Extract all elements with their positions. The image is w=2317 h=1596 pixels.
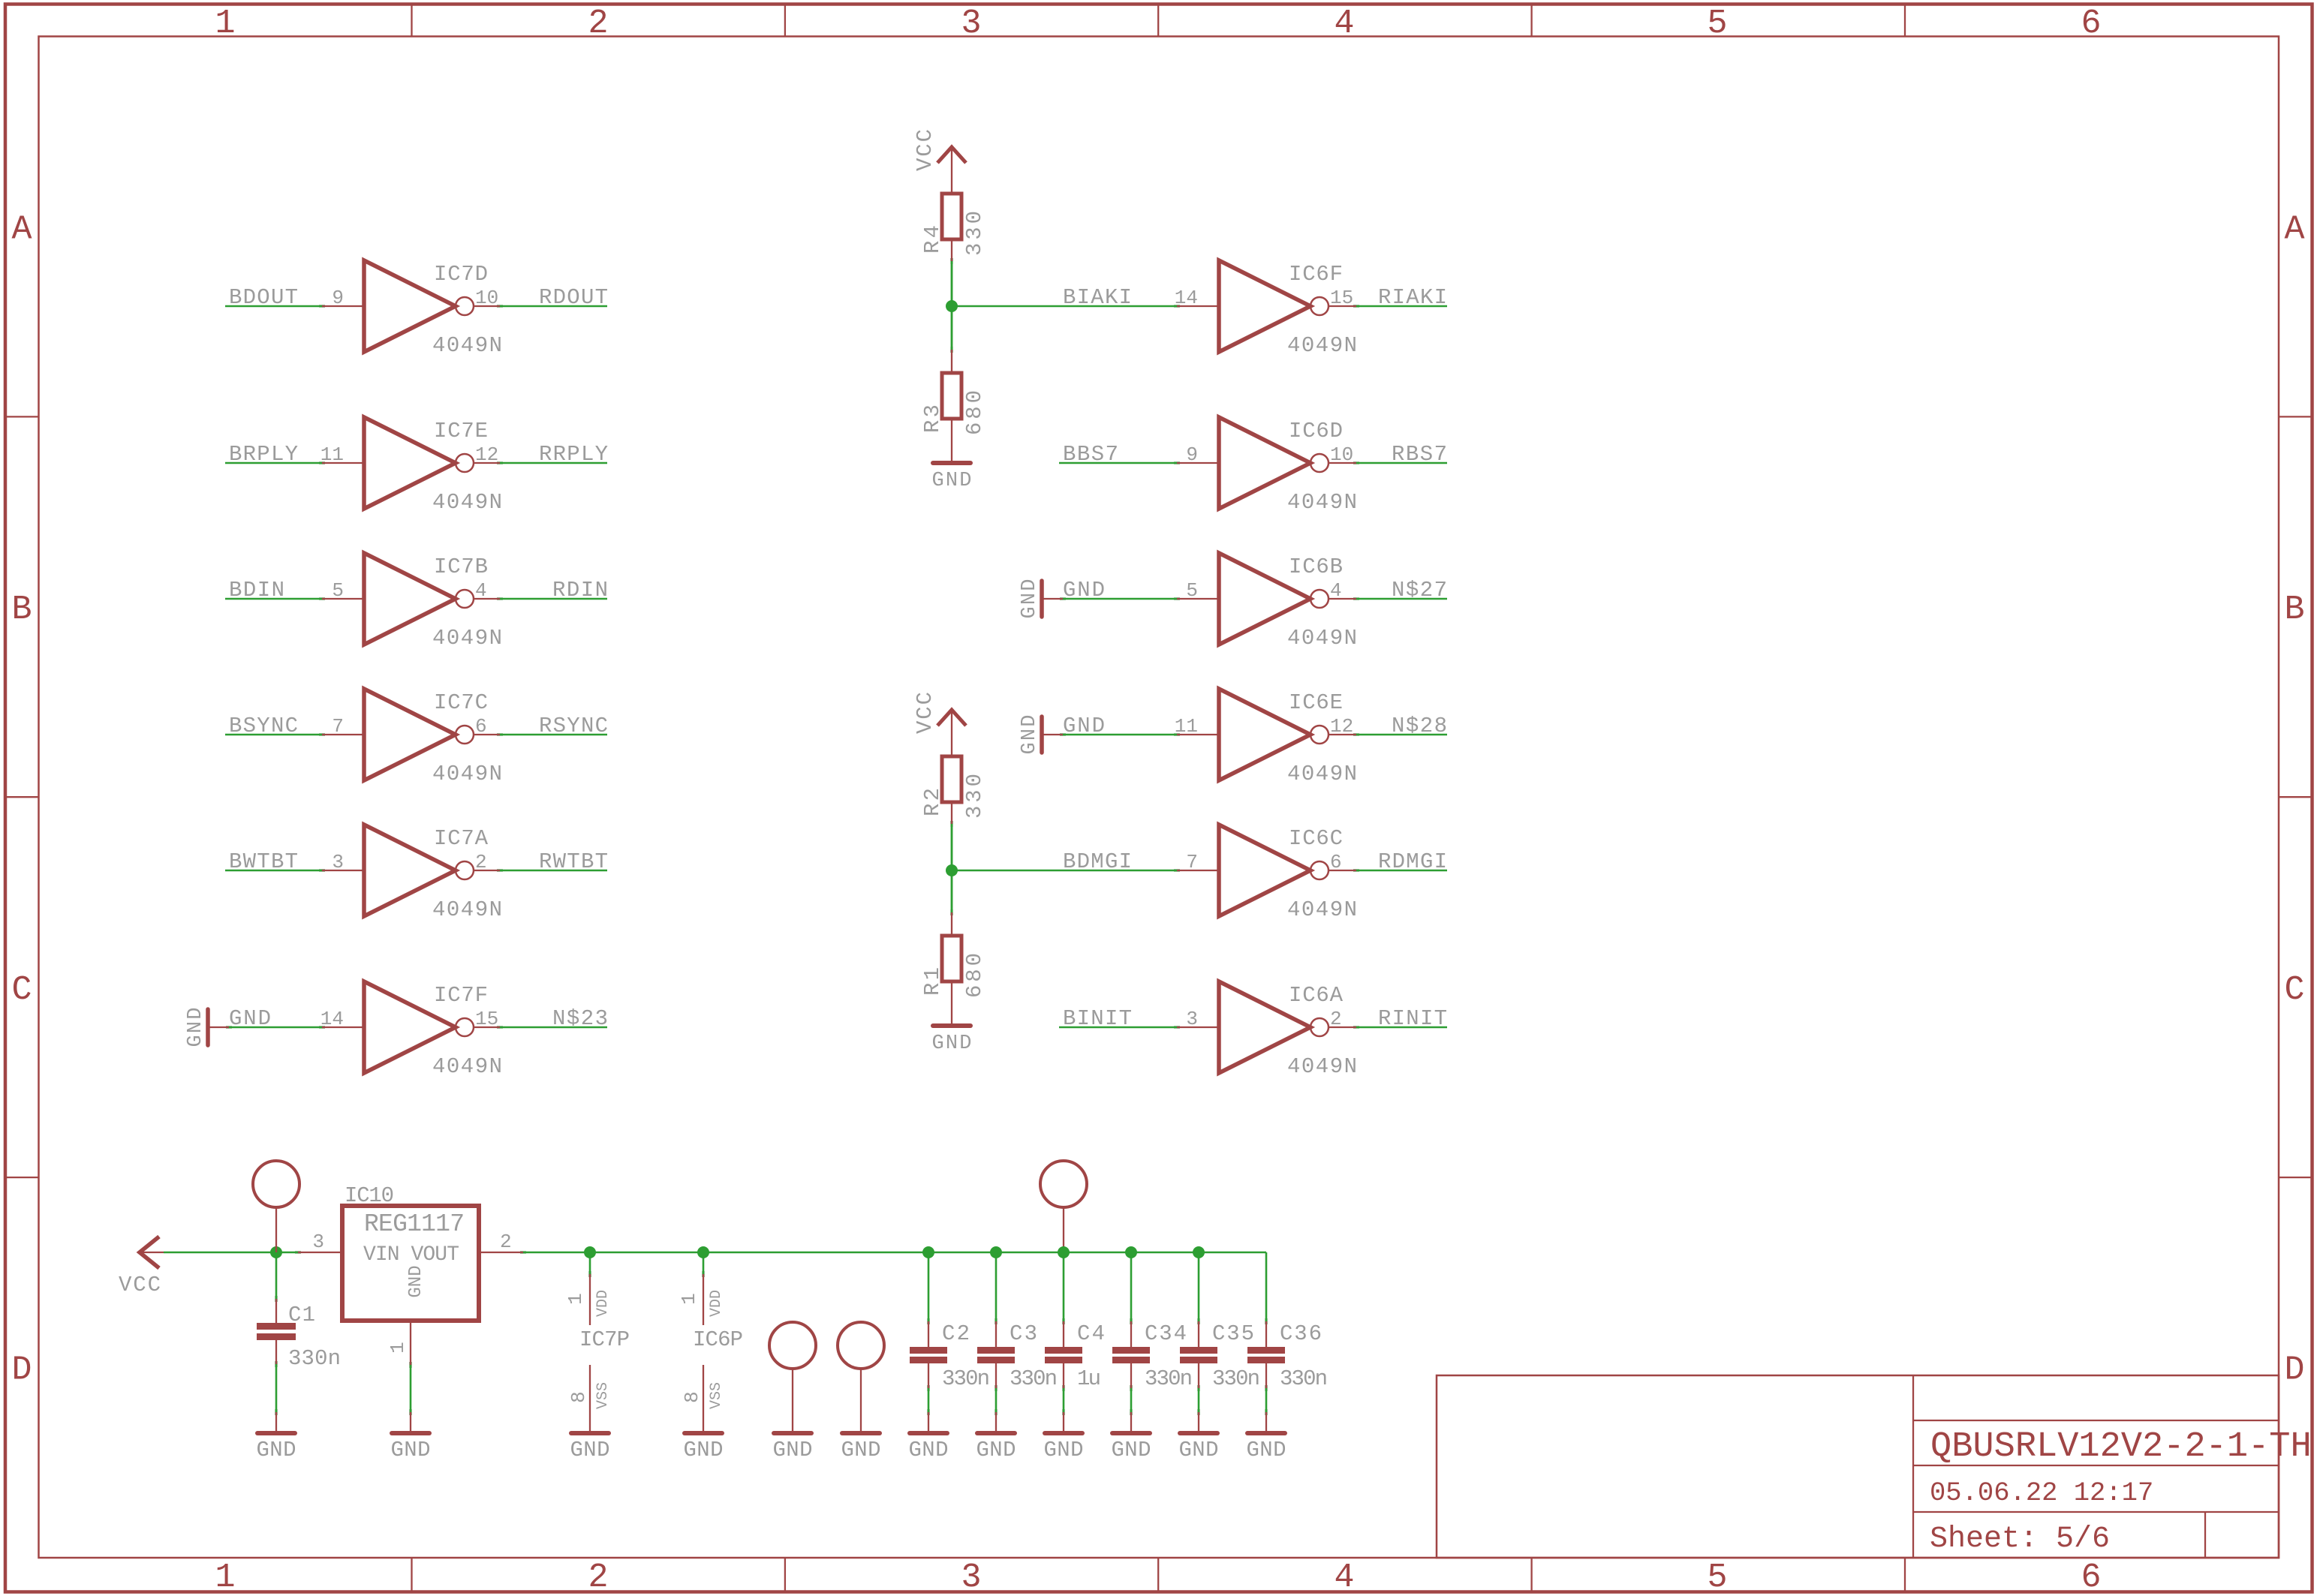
inverter IC6C: [1219, 825, 1329, 916]
svg-text:IC7A: IC7A: [434, 826, 489, 851]
svg-text:C1: C1: [288, 1303, 315, 1327]
svg-text:IC6F: IC6F: [1289, 262, 1343, 287]
svg-text:GND: GND: [909, 1438, 949, 1462]
svg-text:4: 4: [475, 579, 487, 602]
svg-text:11: 11: [1175, 715, 1198, 738]
svg-text:VSS: VSS: [708, 1382, 725, 1409]
wire net RBS7: [1356, 462, 1447, 464]
ground below C1: [257, 1433, 296, 1462]
junction at C34: [1125, 1246, 1137, 1258]
pin 3 of IC7A: [322, 870, 364, 871]
svg-text:GND: GND: [932, 1032, 972, 1055]
pin wire below R3: [951, 419, 952, 463]
wire net BDOUT: [225, 305, 322, 308]
svg-text:GND: GND: [1112, 1438, 1151, 1462]
svg-text:GND: GND: [229, 1006, 271, 1031]
svg-text:330n: 330n: [288, 1346, 341, 1371]
pin 6 of IC6C: [1329, 870, 1356, 871]
svg-text:6: 6: [475, 715, 487, 738]
svg-text:12: 12: [1330, 715, 1353, 738]
svg-text:C34: C34: [1145, 1321, 1187, 1346]
svg-text:BSYNC: BSYNC: [229, 714, 298, 738]
svg-text:C36: C36: [1280, 1321, 1322, 1346]
pin 11 of IC6E: [1177, 734, 1219, 735]
pin 12 of IC6E: [1329, 734, 1356, 735]
svg-text:1: 1: [678, 1293, 700, 1305]
svg-text:C: C: [11, 971, 32, 1009]
svg-text:GND: GND: [406, 1265, 426, 1297]
svg-text:3: 3: [961, 1558, 981, 1596]
testpoint pad above C4: [1040, 1161, 1087, 1252]
svg-text:N$28: N$28: [1392, 714, 1447, 738]
svg-text:330n: 330n: [1280, 1366, 1328, 1391]
svg-text:8: 8: [681, 1391, 703, 1403]
inverter IC7B: [364, 553, 474, 645]
inverter IC7F: [364, 981, 474, 1073]
testpoint pad: [838, 1322, 884, 1433]
svg-text:15: 15: [475, 1008, 498, 1030]
svg-text:10: 10: [1330, 443, 1353, 466]
svg-text:RBS7: RBS7: [1392, 442, 1447, 467]
svg-text:GND: GND: [257, 1438, 296, 1462]
pin 12 of IC7E: [474, 462, 500, 464]
pin 14 of IC6F: [1177, 305, 1219, 307]
svg-text:4049N: 4049N: [432, 897, 502, 922]
capacitor C1: [257, 1252, 296, 1433]
wire net RDIN: [500, 598, 607, 600]
svg-text:IC6C: IC6C: [1289, 826, 1343, 851]
inverter IC7A: [364, 825, 474, 916]
svg-text:4049N: 4049N: [1287, 490, 1357, 515]
inverter IC7E: [364, 417, 474, 509]
svg-text:RRPLY: RRPLY: [539, 442, 608, 467]
svg-text:N$27: N$27: [1392, 578, 1447, 603]
VCC symbol above R4: [937, 147, 966, 194]
svg-text:IC7D: IC7D: [434, 262, 488, 287]
svg-text:C: C: [2284, 971, 2304, 1009]
resistor R3: [942, 373, 961, 419]
svg-text:Sheet: 5/6: Sheet: 5/6: [1930, 1522, 2110, 1556]
wire net RSYNC: [500, 734, 607, 736]
svg-text:680: 680: [962, 953, 987, 998]
testpoint pad: [769, 1322, 816, 1433]
svg-text:8: 8: [567, 1391, 590, 1403]
ground below C34: [1112, 1433, 1151, 1462]
svg-text:7: 7: [1186, 851, 1198, 873]
wire net BBS7: [1059, 462, 1177, 464]
pin 2 of IC7A: [474, 870, 500, 871]
svg-text:IC7E: IC7E: [434, 419, 488, 443]
svg-text:IC7C: IC7C: [434, 690, 488, 715]
svg-text:7: 7: [332, 715, 344, 738]
pin 5 of IC6B: [1177, 598, 1219, 600]
svg-text:4049N: 4049N: [432, 762, 502, 786]
svg-text:VSS: VSS: [594, 1382, 612, 1409]
svg-text:3: 3: [332, 851, 344, 873]
svg-text:330n: 330n: [942, 1366, 990, 1391]
svg-text:BDIN: BDIN: [229, 578, 284, 603]
svg-text:14: 14: [1175, 287, 1198, 309]
junction at C2: [922, 1246, 934, 1258]
pin 10 of IC6D: [1329, 462, 1356, 464]
svg-text:GND: GND: [932, 470, 972, 492]
wire net RWTBT: [500, 870, 607, 872]
svg-text:14: 14: [320, 1008, 344, 1030]
svg-text:IC7F: IC7F: [434, 983, 488, 1008]
ground below testpoint: [841, 1433, 881, 1462]
svg-text:IC7B: IC7B: [434, 555, 488, 579]
svg-text:3: 3: [1186, 1008, 1198, 1030]
svg-text:C35: C35: [1212, 1321, 1254, 1346]
svg-text:4049N: 4049N: [1287, 333, 1357, 358]
svg-text:2: 2: [475, 851, 487, 873]
svg-text:4049N: 4049N: [1287, 762, 1357, 786]
power pins of IC6P: [678, 1252, 725, 1433]
svg-text:VCC: VCC: [913, 129, 937, 171]
svg-text:VCC: VCC: [119, 1273, 161, 1297]
svg-text:N$23: N$23: [552, 1006, 608, 1031]
resistor R2: [942, 756, 961, 802]
svg-text:B: B: [2284, 591, 2304, 629]
svg-text:VCC: VCC: [913, 692, 937, 734]
svg-text:05.06.22 12:17: 05.06.22 12:17: [1930, 1477, 2153, 1508]
capacitor C34: [1112, 1252, 1150, 1433]
svg-text:GND: GND: [1063, 714, 1105, 738]
ground below testpoint: [773, 1433, 813, 1462]
svg-text:VDD: VDD: [594, 1290, 612, 1317]
svg-text:4049N: 4049N: [432, 333, 502, 358]
wire to node: [951, 261, 953, 350]
svg-text:GND: GND: [1179, 1438, 1219, 1462]
wire net BSYNC: [225, 734, 322, 736]
svg-text:5: 5: [1707, 1558, 1727, 1596]
svg-text:2: 2: [1330, 1008, 1342, 1030]
svg-text:IC6D: IC6D: [1289, 419, 1343, 443]
svg-text:1: 1: [215, 5, 235, 43]
inverter IC6A: [1219, 981, 1329, 1073]
wire net RDMGI: [1356, 870, 1447, 872]
svg-text:GND: GND: [1044, 1438, 1084, 1462]
svg-text:12: 12: [475, 443, 498, 466]
inverter IC7C: [364, 689, 474, 780]
wire net N$23: [500, 1026, 607, 1029]
inverter IC6D: [1219, 417, 1329, 509]
svg-text:1u: 1u: [1077, 1366, 1101, 1391]
wire net RRPLY: [500, 462, 607, 464]
svg-text:BBS7: BBS7: [1063, 442, 1118, 467]
pin 3 of IC6A: [1177, 1026, 1219, 1028]
svg-text:3: 3: [312, 1231, 324, 1253]
capacitor C35: [1180, 1252, 1217, 1433]
svg-text:6: 6: [2081, 5, 2101, 43]
pin 5 of IC7B: [322, 598, 364, 600]
wire to node: [951, 824, 953, 912]
svg-text:D: D: [2284, 1351, 2304, 1390]
svg-text:5: 5: [332, 579, 344, 602]
ground below C4: [1044, 1433, 1084, 1462]
svg-text:4049N: 4049N: [432, 490, 502, 515]
svg-text:GND: GND: [1019, 579, 1041, 619]
wire GND to IC7F input: [229, 1026, 322, 1029]
svg-text:330n: 330n: [1212, 1366, 1260, 1391]
svg-text:RIAKI: RIAKI: [1378, 285, 1447, 310]
inverter IC6F: [1219, 260, 1329, 352]
pin 15 of IC7F: [474, 1026, 500, 1028]
svg-text:QBUSRLV12V2-2-1-TH: QBUSRLV12V2-2-1-TH: [1930, 1427, 2312, 1467]
svg-text:6: 6: [1330, 851, 1342, 873]
wire net BIAKI from node R4/R3: [951, 261, 953, 350]
wire net BWTBT: [225, 870, 322, 872]
capacitor C2: [910, 1252, 947, 1433]
svg-text:4049N: 4049N: [432, 626, 502, 651]
testpoint pad above C1: [253, 1161, 299, 1252]
pin 9 of IC6D: [1177, 462, 1219, 464]
wire GND to IC6B input: [1063, 598, 1177, 600]
wire net BDMGI from node R2/R1: [951, 824, 953, 912]
svg-text:BRPLY: BRPLY: [229, 442, 298, 467]
ground symbol at input of IC7F: [185, 1008, 229, 1047]
inverter IC6B: [1219, 553, 1329, 645]
svg-text:GND: GND: [570, 1438, 610, 1462]
svg-text:5: 5: [1186, 579, 1198, 602]
svg-text:330: 330: [962, 774, 987, 819]
svg-text:5: 5: [1707, 5, 1727, 43]
svg-text:BINIT: BINIT: [1063, 1006, 1132, 1031]
ground below IC7P: [570, 1433, 610, 1462]
svg-text:RDOUT: RDOUT: [539, 285, 608, 310]
pin 2 of IC6A: [1329, 1026, 1356, 1028]
pin 9 of IC7D: [322, 305, 364, 307]
junction node: [946, 300, 958, 312]
pin wire below R4: [951, 239, 952, 261]
wire net BRPLY: [225, 462, 322, 464]
svg-text:GND: GND: [976, 1438, 1016, 1462]
capacitor C4: [1045, 1252, 1082, 1433]
pin 2 of IC10: [479, 1252, 523, 1253]
svg-text:4: 4: [1334, 5, 1354, 43]
svg-text:2: 2: [500, 1231, 512, 1253]
svg-text:2: 2: [588, 5, 608, 43]
regulator IC10 body: [342, 1206, 479, 1321]
svg-text:GND: GND: [773, 1438, 813, 1462]
svg-text:10: 10: [475, 287, 498, 309]
svg-text:IC6A: IC6A: [1289, 983, 1344, 1008]
ground below C3: [976, 1433, 1016, 1462]
svg-text:VDD: VDD: [708, 1290, 725, 1317]
svg-text:1: 1: [564, 1293, 587, 1305]
pin wire above R3: [951, 350, 952, 373]
svg-text:A: A: [11, 211, 32, 249]
ground below C35: [1179, 1433, 1219, 1462]
svg-text:BWTBT: BWTBT: [229, 849, 298, 874]
svg-text:4: 4: [1330, 579, 1342, 602]
wire from divider node to IC6F input: [952, 305, 1177, 308]
pin 10 of IC7D: [474, 305, 500, 307]
svg-text:GND: GND: [841, 1438, 881, 1462]
svg-text:330n: 330n: [1145, 1366, 1193, 1391]
svg-text:RDIN: RDIN: [552, 578, 608, 603]
junction at IC7P: [584, 1246, 596, 1258]
svg-text:IC6B: IC6B: [1289, 555, 1343, 579]
pin 7 of IC6C: [1177, 870, 1219, 871]
ground below IC6P: [684, 1433, 724, 1462]
junction at C35: [1193, 1246, 1205, 1258]
svg-text:B: B: [11, 591, 32, 629]
svg-text:1: 1: [387, 1342, 409, 1354]
pin 11 of IC7E: [322, 462, 364, 464]
svg-text:9: 9: [1186, 443, 1198, 466]
svg-text:IC6P: IC6P: [693, 1327, 743, 1352]
svg-text:D: D: [11, 1351, 32, 1390]
svg-text:330n: 330n: [1010, 1366, 1058, 1391]
pin 3 of IC10: [298, 1252, 342, 1253]
svg-text:VIN VOUT: VIN VOUT: [363, 1243, 459, 1267]
svg-text:IC6E: IC6E: [1289, 690, 1343, 715]
svg-text:6: 6: [2081, 1558, 2101, 1596]
ground symbol below R1: [932, 1026, 972, 1055]
wire net BINIT: [1059, 1026, 1177, 1029]
svg-text:4049N: 4049N: [1287, 1054, 1357, 1079]
svg-text:GND: GND: [185, 1008, 207, 1047]
junction at IC6P: [697, 1246, 709, 1258]
ground symbol at input of IC6B: [1019, 579, 1063, 619]
pin 6 of IC7C: [474, 734, 500, 735]
capacitor C3: [977, 1252, 1015, 1433]
svg-text:GND: GND: [1019, 715, 1041, 755]
ground below C36: [1247, 1433, 1286, 1462]
wire net RIAKI: [1356, 305, 1447, 308]
pin wire above R1: [951, 912, 952, 936]
resistor R1: [942, 936, 961, 981]
wire net BDIN: [225, 598, 322, 600]
svg-text:680: 680: [962, 390, 987, 435]
ground symbol at input of IC6E: [1019, 715, 1063, 755]
wire net RDOUT: [500, 305, 607, 308]
svg-text:IC7P: IC7P: [579, 1327, 630, 1352]
VCC symbol above R2: [937, 710, 966, 756]
ground below IC10 pin 1: [391, 1412, 431, 1462]
inverter IC7D: [364, 260, 474, 352]
wire GND to IC6E input: [1063, 734, 1177, 736]
svg-text:4049N: 4049N: [1287, 897, 1357, 922]
resistor R4: [942, 194, 961, 239]
wire VCC rail right: [523, 1252, 1266, 1254]
svg-text:4049N: 4049N: [432, 1054, 502, 1079]
svg-text:BDOUT: BDOUT: [229, 285, 298, 310]
svg-text:GND: GND: [391, 1438, 431, 1462]
junction at C1: [270, 1246, 282, 1258]
svg-text:1: 1: [215, 1558, 235, 1596]
pin wire below R1: [951, 981, 952, 1026]
ground below C2: [909, 1433, 949, 1462]
ground symbol below R3: [932, 463, 972, 492]
svg-text:BDMGI: BDMGI: [1063, 849, 1132, 874]
svg-text:RWTBT: RWTBT: [539, 849, 608, 874]
power pins of IC7P: [564, 1252, 612, 1433]
svg-text:330: 330: [962, 211, 987, 256]
svg-text:9: 9: [332, 287, 344, 309]
junction node: [946, 864, 958, 876]
wire IC10 pin1 to ground: [410, 1365, 412, 1412]
pin 1 of IC10: [410, 1321, 411, 1365]
svg-text:GND: GND: [684, 1438, 724, 1462]
svg-text:IC10: IC10: [345, 1183, 394, 1208]
svg-text:RINIT: RINIT: [1378, 1006, 1447, 1031]
svg-text:RDMGI: RDMGI: [1378, 849, 1447, 874]
svg-text:REG1117: REG1117: [364, 1210, 465, 1238]
svg-text:4049N: 4049N: [1287, 626, 1357, 651]
svg-text:3: 3: [961, 5, 981, 43]
svg-text:GND: GND: [1247, 1438, 1286, 1462]
svg-text:11: 11: [320, 443, 344, 466]
pin 4 of IC7B: [474, 598, 500, 600]
pin 15 of IC6F: [1329, 305, 1356, 307]
wire net N$28: [1356, 734, 1447, 736]
pin 14 of IC7F: [322, 1026, 364, 1028]
wire from divider node to IC6C input: [952, 870, 1177, 872]
svg-text:RSYNC: RSYNC: [539, 714, 608, 738]
VCC arrow (left): [140, 1237, 164, 1268]
pin wire below R2: [951, 802, 952, 824]
capacitor C36: [1247, 1252, 1285, 1433]
wire net N$27: [1356, 598, 1447, 600]
svg-text:A: A: [2284, 211, 2304, 249]
junction at C3: [990, 1246, 1002, 1258]
wire net RINIT: [1356, 1026, 1447, 1029]
svg-text:4: 4: [1334, 1558, 1354, 1596]
svg-text:15: 15: [1330, 287, 1353, 309]
wire VCC rail left: [164, 1252, 298, 1254]
junction at C4: [1058, 1246, 1070, 1258]
svg-text:2: 2: [588, 1558, 608, 1596]
svg-text:GND: GND: [1063, 578, 1105, 603]
pin 7 of IC7C: [322, 734, 364, 735]
svg-text:BIAKI: BIAKI: [1063, 285, 1132, 310]
inverter IC6E: [1219, 689, 1329, 780]
pin 4 of IC6B: [1329, 598, 1356, 600]
